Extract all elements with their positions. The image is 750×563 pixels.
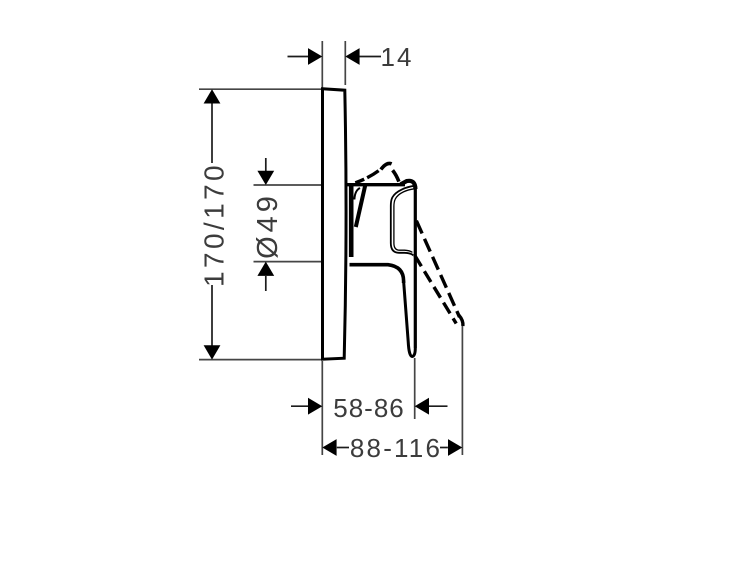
dimension 170/170: top arrow bbox=[204, 89, 221, 103]
dimension 170/170: bottom extension line bbox=[199, 359, 322, 361]
bottom left extension line (from plate) bbox=[321, 361, 323, 455]
lever left edge + rounded tip bbox=[404, 281, 416, 357]
bottom right extension line (from dashed tip) bbox=[461, 326, 463, 455]
dimension 14: left tail + arrow bbox=[288, 56, 309, 58]
dimension 88-116: right arrow bbox=[448, 439, 462, 456]
dimension 58-86: left tail + arrow bbox=[291, 405, 309, 407]
diagonal brace bbox=[356, 185, 366, 227]
svg-text:58-86: 58-86 bbox=[333, 393, 405, 423]
dimension 170/170: bottom arrow bbox=[204, 345, 221, 359]
svg-text:170/170: 170/170 bbox=[199, 162, 230, 287]
brace fillet arc bbox=[354, 188, 360, 200]
dimension 88-116: right segment bbox=[440, 447, 448, 449]
handle top corner bbox=[401, 181, 416, 189]
dimension 14: left extension line bbox=[321, 41, 323, 88]
dimension O49: top extension line bbox=[254, 184, 322, 186]
dashed lever raised: lower-left curved dashes bbox=[355, 169, 381, 183]
bottom middle extension line (from lever tip) bbox=[414, 358, 416, 419]
dimension 170/170: vertical line lower segment bbox=[211, 285, 213, 346]
dimension 14: right arrow + tail bbox=[345, 48, 359, 65]
valve body top line bbox=[347, 183, 405, 186]
wall plate bbox=[323, 89, 347, 359]
dimension 58-86: right arrow + tail bbox=[415, 398, 429, 415]
handle right edge bbox=[414, 188, 417, 348]
dimension 14: right extension line bbox=[344, 41, 346, 85]
dimension 88-116: left arrow bbox=[322, 439, 336, 456]
dashed lever raised: right descending dash bbox=[393, 170, 399, 181]
dimension 88-116: left segment bbox=[337, 447, 349, 449]
svg-text:88-116: 88-116 bbox=[350, 433, 442, 463]
dashed lever open: upper line with hooked tip bbox=[415, 217, 460, 318]
dimension O49: upper tail + arrow bbox=[265, 158, 267, 171]
dashed lever open: hooked tip dash bbox=[459, 315, 463, 326]
dashed lever raised: tip arc dash bbox=[381, 163, 392, 169]
grip pad outer contour bbox=[391, 186, 415, 256]
dimension 170/170: top extension line bbox=[199, 88, 322, 90]
svg-text:14: 14 bbox=[381, 42, 414, 72]
dimension O49: lower arrow + tail bbox=[257, 262, 274, 276]
dimension O49: bottom extension line bbox=[254, 261, 322, 263]
grip pad inner contour bbox=[394, 189, 414, 253]
valve body bottom + lever front curve bbox=[350, 265, 404, 283]
valve body left edge (thick bar) bbox=[349, 184, 354, 257]
dashed lever open: lower line bbox=[415, 256, 456, 324]
dimension 170/170: vertical line upper segment bbox=[211, 103, 213, 163]
svg-text:Ø49: Ø49 bbox=[252, 192, 284, 259]
